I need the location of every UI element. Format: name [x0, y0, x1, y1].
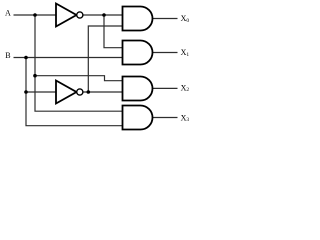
svg-text:B: B [5, 51, 10, 60]
svg-text:A: A [5, 9, 11, 18]
